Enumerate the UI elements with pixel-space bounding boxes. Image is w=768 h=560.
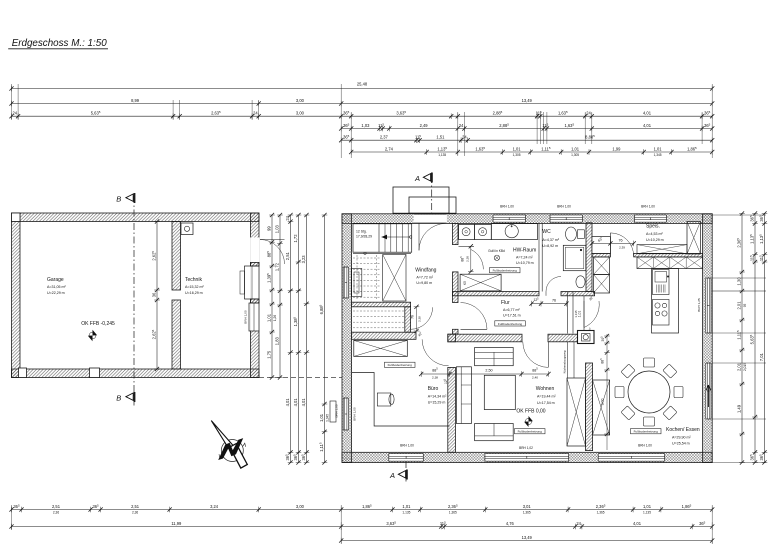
svg-text:2,51: 2,51: [52, 504, 61, 509]
wc bottom wall: [561, 292, 595, 296]
svg-text:A=6,77 m²: A=6,77 m²: [503, 308, 520, 312]
svg-text:2,50: 2,50: [485, 368, 492, 372]
svg-text:1,01: 1,01: [402, 504, 411, 509]
svg-text:BRH 1,00: BRH 1,00: [335, 404, 339, 417]
svg-text:A=31,05 m²: A=31,05 m²: [47, 285, 66, 289]
svg-text:1,01: 1,01: [643, 504, 652, 509]
svg-text:1,01: 1,01: [571, 147, 580, 152]
svg-text:76: 76: [618, 239, 622, 243]
right building left wall: [342, 214, 352, 463]
svg-text:Flur: Flur: [501, 300, 510, 306]
right dim chain 3: [764, 214, 766, 463]
svg-text:1,72: 1,72: [293, 234, 298, 243]
svg-text:Kochen/ Essen: Kochen/ Essen: [666, 427, 700, 433]
top dims extension lines: [11, 84, 13, 120]
svg-text:BRH 1,00: BRH 1,00: [638, 444, 652, 448]
garage interior dim: [156, 222, 158, 370]
svg-text:4,01: 4,01: [285, 398, 290, 407]
svg-text:24: 24: [285, 215, 290, 220]
svg-text:4,01: 4,01: [643, 111, 652, 116]
kuechenabzug duct lines: [567, 342, 569, 378]
svg-text:Erdgeschoss M.: 1:50: Erdgeschoss M.: 1:50: [12, 37, 107, 49]
svg-text:13,49: 13,49: [522, 535, 533, 540]
dim chain technik wall: [271, 215, 273, 378]
staircase upper flight: [353, 224, 412, 252]
svg-text:A=19,44 m²: A=19,44 m²: [537, 395, 556, 399]
svg-text:U=15,29 m: U=15,29 m: [428, 401, 446, 405]
right building bottom wall: [342, 452, 712, 462]
svg-text:2,49: 2,49: [420, 123, 429, 128]
stair basement door arc and dim: [411, 307, 433, 329]
svg-text:4,01: 4,01: [293, 398, 298, 407]
right wall terrace door: [705, 363, 711, 418]
svg-text:Fußbodenheizung: Fußbodenheizung: [388, 363, 413, 367]
svg-text:BRH 1,25: BRH 1,25: [697, 298, 701, 312]
svg-text:3,00: 3,00: [296, 98, 305, 103]
dim chain 4: [298, 215, 300, 463]
svg-text:Fußbodenheizung: Fußbodenheizung: [634, 430, 659, 434]
wc speis wall: [586, 223, 592, 292]
svg-text:2,38: 2,38: [466, 256, 470, 262]
tall cupboard right: [593, 380, 610, 435]
svg-text:K5: K5: [463, 281, 467, 285]
svg-text:A=7,24 m²: A=7,24 m²: [516, 255, 533, 259]
technik window 2: [250, 303, 259, 330]
svg-text:2,36: 2,36: [53, 511, 59, 515]
tall cupboard left: [567, 378, 586, 446]
wohnen door leaf arc: [547, 342, 549, 368]
hwraum fussbodenheizung box: [490, 268, 521, 273]
dim chain 3: [290, 215, 292, 463]
top dimension chain row5: [341, 139, 712, 141]
wc sink: [576, 276, 585, 288]
svg-text:U=17,51 m: U=17,51 m: [503, 313, 521, 317]
svg-text:A=14,34 m²: A=14,34 m²: [428, 395, 447, 399]
garage pillar right: [90, 368, 100, 378]
svg-text:A=15,32 m²: A=15,32 m²: [185, 285, 204, 289]
buero desk: [352, 373, 450, 427]
svg-text:1,135: 1,135: [643, 511, 651, 515]
stairwell void: [383, 255, 406, 302]
svg-text:BRH 1,00: BRH 1,00: [500, 205, 514, 209]
wohnen level symbol: [524, 416, 533, 427]
bottom dims extension lines: [11, 505, 13, 530]
hwraum door leaf dim arc: [459, 245, 475, 247]
duct boxes: [594, 257, 610, 275]
svg-text:1,03: 1,03: [274, 224, 279, 233]
svg-text:2,01: 2,01: [736, 362, 741, 371]
top wall window 1: [493, 215, 526, 221]
svg-text:OK FFB -0,245: OK FFB -0,245: [81, 321, 115, 327]
entrance door leaf and arc: [418, 223, 420, 250]
garage pillar left: [19, 368, 27, 378]
buero door arc: [422, 339, 449, 366]
svg-text:1,03: 1,03: [361, 123, 370, 128]
svg-text:13,49: 13,49: [522, 98, 533, 103]
top dimension chain total 25,48: [12, 88, 713, 90]
flur fussbodenheizung box: [495, 321, 526, 326]
svg-text:36: 36: [151, 292, 156, 297]
technik exterior door arc: [260, 240, 285, 265]
north arrow: [211, 421, 247, 469]
sofa bottom: [475, 424, 514, 441]
svg-text:A=29,90 m²: A=29,90 m²: [672, 436, 691, 440]
svg-text:3,01: 3,01: [523, 504, 532, 509]
svg-text:24: 24: [576, 521, 581, 526]
svg-text:A: A: [389, 471, 395, 480]
svg-text:2,015: 2,015: [743, 363, 747, 371]
bottom dim chain row3: [341, 540, 712, 542]
svg-text:4,01: 4,01: [301, 398, 306, 407]
svg-text:U=22,29 m: U=22,29 m: [47, 291, 65, 295]
speis door pier: [592, 237, 610, 254]
stair landing walls: [352, 302, 411, 307]
small window right bldg left wall: [330, 401, 336, 422]
svg-text:U=17,54 m: U=17,54 m: [537, 401, 555, 405]
svg-text:1,01: 1,01: [266, 313, 271, 322]
sofa left: [456, 367, 471, 424]
svg-text:B: B: [116, 194, 121, 203]
svg-text:Gulli in KBd: Gulli in KBd: [488, 249, 505, 253]
dim chain 5: [306, 215, 308, 463]
dining table: [628, 371, 670, 413]
windfang hwraum flur wall: [453, 223, 459, 244]
svg-text:24: 24: [13, 111, 18, 116]
wc door arc: [546, 277, 561, 292]
svg-text:1,345: 1,345: [654, 153, 662, 157]
svg-text:Windfang: Windfang: [415, 268, 436, 274]
hwraum shower tray: [460, 274, 501, 291]
section line B: [133, 196, 135, 406]
svg-text:17,9/28,29: 17,9/28,29: [356, 235, 372, 239]
svg-text:1,30: 1,30: [736, 277, 741, 286]
svg-text:A=7,72 m²: A=7,72 m²: [416, 275, 433, 279]
flur small dim: [532, 303, 567, 305]
right dim chain 2: [754, 214, 756, 463]
svg-text:11,99: 11,99: [171, 521, 182, 526]
section marker A top: [431, 176, 433, 224]
svg-text:3,00: 3,00: [601, 399, 605, 406]
svg-text:12 Stg.: 12 Stg.: [356, 230, 367, 234]
svg-text:24: 24: [253, 111, 258, 116]
svg-text:1,01: 1,01: [578, 311, 582, 318]
bottom dim chain row2: [12, 526, 713, 528]
left building corner pillar: [12, 213, 21, 222]
svg-text:2,37: 2,37: [380, 135, 389, 140]
left wall window windfang: [343, 267, 349, 297]
svg-text:24: 24: [459, 123, 464, 128]
stair walk line: [382, 236, 411, 238]
svg-text:Küchenabzugsweg: Küchenabzugsweg: [563, 350, 567, 373]
svg-text:A: A: [414, 174, 420, 183]
wall flur wohnen: [448, 334, 522, 342]
svg-text:U=8,92 m: U=8,92 m: [542, 244, 558, 248]
svg-text:95: 95: [743, 304, 747, 308]
left building outer walls: [12, 213, 260, 222]
svg-text:Fußbodenheizung: Fußbodenheizung: [493, 269, 518, 273]
svg-text:1,365: 1,365: [449, 511, 457, 515]
speis bottom shelf: [637, 245, 687, 254]
right building right wall: [703, 214, 713, 463]
svg-text:OK FFB 0,00: OK FFB 0,00: [516, 409, 545, 415]
kochen dim vertical: [606, 334, 608, 450]
kitchen stove: [653, 300, 670, 326]
right dim extension lines: [712, 214, 766, 216]
svg-text:Wohnen: Wohnen: [536, 386, 555, 392]
svg-text:2,51: 2,51: [131, 504, 140, 509]
dashed line between buildings: [259, 377, 342, 379]
svg-text:2,01: 2,01: [736, 301, 741, 310]
svg-text:U=16,29 m: U=16,29 m: [185, 291, 203, 295]
svg-text:Fußbodenheizung: Fußbodenheizung: [518, 430, 543, 434]
svg-text:1,99: 1,99: [612, 147, 621, 152]
dim chain 2: [279, 215, 281, 378]
svg-text:1,01: 1,01: [513, 147, 522, 152]
svg-text:U=9,80 m: U=9,80 m: [416, 281, 432, 285]
svg-text:BRH 1,02: BRH 1,02: [519, 446, 533, 450]
buero top wall: [352, 332, 416, 339]
svg-text:1,26: 1,26: [273, 315, 277, 321]
chimney: [578, 331, 595, 344]
section line A bottom: [405, 461, 407, 482]
svg-text:2,74: 2,74: [385, 147, 394, 152]
wall buero wohnen: [448, 334, 456, 342]
svg-text:1,75: 1,75: [266, 350, 271, 359]
svg-text:Speis.: Speis.: [646, 224, 660, 230]
svg-text:4,01: 4,01: [643, 123, 652, 128]
svg-text:1,365: 1,365: [597, 511, 605, 515]
svg-text:A=4,37 m²: A=4,37 m²: [542, 238, 559, 242]
svg-text:BRH 1,00: BRH 1,00: [641, 205, 655, 209]
wc toilet: [566, 227, 577, 241]
svg-text:HW-Raum: HW-Raum: [513, 248, 536, 254]
svg-text:U=10,79 m: U=10,79 m: [516, 261, 534, 265]
svg-text:2,51: 2,51: [285, 251, 290, 260]
svg-text:U=25,54 m: U=25,54 m: [672, 442, 690, 446]
svg-text:1,305: 1,305: [571, 153, 579, 157]
wohnen fussbodenheizung box: [515, 429, 546, 434]
svg-text:BRH 1,00: BRH 1,00: [244, 310, 248, 324]
wc shower: [563, 245, 586, 270]
technik exterior door opening: [250, 237, 259, 262]
svg-text:24: 24: [462, 135, 467, 140]
svg-text:1,135: 1,135: [402, 511, 410, 515]
svg-text:BRH 1,00: BRH 1,00: [353, 407, 357, 421]
top dimension chain row6: [351, 151, 712, 153]
top dimension chain row2: [12, 103, 713, 105]
laundry sink: [491, 224, 537, 240]
garage technik interior wall: [172, 222, 181, 291]
bottom wall window buero: [388, 454, 423, 461]
svg-text:3,23: 3,23: [301, 255, 306, 264]
svg-text:2,36: 2,36: [132, 511, 138, 515]
bottom wall window wohnen terrace: [485, 454, 570, 461]
svg-text:76: 76: [411, 315, 415, 319]
washing machine 1: [459, 224, 475, 239]
svg-text:Büro: Büro: [428, 386, 439, 392]
kochen wohnen wall strip: [586, 363, 593, 451]
bottom wall window kochen: [598, 454, 665, 461]
svg-text:A=4,53 m²: A=4,53 m²: [646, 232, 663, 236]
svg-text:2,38: 2,38: [432, 376, 438, 380]
top wall window 2: [550, 215, 583, 221]
svg-text:1,365: 1,365: [523, 511, 531, 515]
svg-text:3,24: 3,24: [210, 504, 219, 509]
right wall window upper: [705, 278, 711, 332]
svg-text:Technik: Technik: [185, 277, 202, 283]
svg-text:1,135: 1,135: [438, 153, 446, 157]
buero fussbodenheizung box: [385, 362, 416, 367]
top dimension chain row4: [341, 128, 712, 130]
svg-text:WC: WC: [542, 229, 551, 235]
svg-text:1,51: 1,51: [436, 135, 445, 140]
svg-text:4,01: 4,01: [633, 521, 642, 526]
dining chairs: [644, 358, 655, 367]
entrance opening: [414, 214, 447, 223]
svg-text:1,83: 1,83: [274, 336, 279, 345]
interior dim line buero wohnen: [421, 373, 548, 375]
svg-text:B: B: [116, 393, 121, 402]
speis bottom wall: [592, 253, 610, 257]
svg-text:8,99: 8,99: [131, 98, 140, 103]
garage level symbol: [88, 330, 97, 342]
technik drain box: [181, 223, 193, 235]
svg-text:3,00: 3,00: [296, 504, 305, 509]
entrance threshold: [414, 214, 447, 216]
bottom dim chain row1: [12, 509, 713, 511]
svg-text:1,305: 1,305: [513, 153, 521, 157]
svg-text:1,135: 1,135: [574, 310, 578, 318]
top dimension chain row3: [12, 115, 713, 117]
left wall window buero: [343, 398, 349, 429]
stair lower flight ghost: [353, 257, 380, 259]
kochen fussbodenheizung box: [631, 429, 662, 434]
right building top wall: [342, 214, 712, 224]
right dim chain 1: [741, 214, 743, 463]
svg-text:7,01: 7,01: [759, 352, 764, 361]
svg-text:3,00: 3,00: [296, 111, 305, 116]
svg-text:1,345: 1,345: [326, 414, 330, 422]
svg-text:2,40: 2,40: [532, 376, 538, 380]
svg-text:2,39: 2,39: [619, 246, 625, 250]
top wall window 3: [634, 215, 667, 221]
kitchen sink: [653, 270, 670, 295]
entrance porch steps: [393, 187, 449, 213]
kochen door dim: [583, 301, 585, 328]
svg-text:4,76: 4,76: [506, 521, 515, 526]
svg-text:BRH 1,00: BRH 1,00: [400, 444, 414, 448]
wc left wall: [538, 223, 540, 292]
svg-text:1,01: 1,01: [654, 147, 663, 152]
svg-text:1,72: 1,72: [274, 262, 279, 271]
buero chair: [377, 393, 391, 406]
buero sideboard: [354, 340, 408, 356]
technik wall stubs: [251, 263, 260, 267]
speis door dim: [592, 242, 634, 244]
kitchen counter: [652, 269, 679, 334]
speis shelf right: [687, 222, 701, 255]
svg-text:2,38: 2,38: [417, 316, 421, 322]
kitchen upper cabinets: [637, 257, 703, 269]
dim chain 6: [324, 215, 326, 463]
speis door leaf and arc: [609, 233, 611, 254]
washing machine 2: [475, 224, 492, 239]
svg-text:U=10,29 m: U=10,29 m: [646, 238, 664, 242]
svg-text:Fußbodenheizung: Fußbodenheizung: [498, 322, 523, 326]
svg-text:99: 99: [266, 226, 271, 231]
svg-text:76: 76: [552, 299, 556, 303]
hwraum flur wall: [453, 292, 540, 296]
sofa top: [475, 348, 514, 366]
svg-text:1,49: 1,49: [736, 404, 741, 413]
flur kochen corridor walls: [567, 292, 569, 334]
svg-text:1,01: 1,01: [319, 413, 324, 422]
svg-text:BRH 1,00: BRH 1,00: [557, 205, 571, 209]
coffee table: [484, 375, 515, 409]
kochen door arc: [584, 301, 599, 328]
svg-text:25,48: 25,48: [357, 82, 368, 87]
windfang flur door leaf arc: [461, 328, 488, 330]
technik window 1: [250, 266, 259, 298]
svg-text:24: 24: [586, 111, 591, 116]
svg-text:Garage: Garage: [47, 277, 64, 283]
